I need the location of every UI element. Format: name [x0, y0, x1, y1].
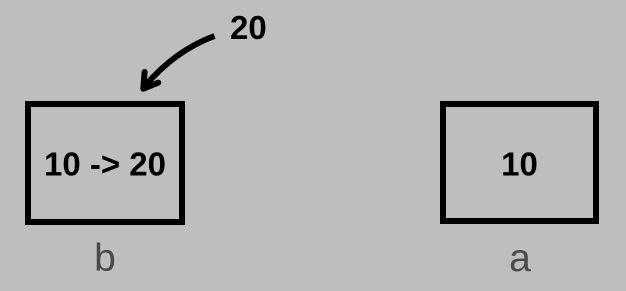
arrow shaft: [145, 36, 215, 87]
box b: [25, 101, 185, 225]
label a: [470, 237, 570, 281]
label b: [55, 237, 155, 281]
arrowhead: [143, 72, 158, 89]
box a: [440, 101, 599, 224]
value label 20: [230, 9, 267, 47]
